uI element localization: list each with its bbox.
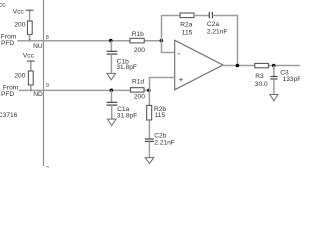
resistor R1d — [130, 79, 145, 101]
wire C1b to ground — [110, 54, 112, 73]
wire to inverting input (down jog) — [162, 41, 175, 53]
inverting input marker - — [178, 53, 181, 55]
resistor R1b — [130, 31, 145, 54]
capacitor C2b — [145, 132, 175, 146]
svg-text:9: 9 — [46, 83, 49, 89]
svg-text:115: 115 — [155, 112, 166, 119]
junction feedback/output — [236, 64, 240, 68]
svg-text:200: 200 — [14, 21, 25, 28]
capacitor C1b — [107, 41, 137, 74]
capacitor C3 — [270, 66, 301, 95]
wire pull-up to NU — [29, 34, 31, 40]
svg-text:200: 200 — [134, 47, 145, 54]
chip boundary line — [43, 0, 45, 166]
junction on ND for C1a — [110, 89, 114, 93]
wire output — [223, 65, 300, 67]
wire output node to C3 — [273, 66, 275, 77]
svg-text:R1d: R1d — [132, 79, 144, 86]
svg-text:2.21nF: 2.21nF — [154, 140, 175, 147]
svg-text:Vcc: Vcc — [13, 9, 25, 16]
op-amp U1 — [175, 40, 223, 90]
resistor body — [255, 63, 269, 67]
junction — [29, 40, 31, 42]
svg-text:133pF: 133pF — [283, 76, 300, 83]
svg-text:C3716: C3716 — [0, 112, 18, 119]
wire net NU — [17, 40, 161, 42]
wire Vcc to resistor — [29, 10, 31, 21]
label From PFD (upper) — [1, 34, 17, 47]
resistor 200 (lower Vcc pull-up) — [14, 71, 33, 85]
capacitor C1a — [107, 90, 138, 119]
wire feedback top — [161, 15, 180, 17]
svg-text:Vcc: Vcc — [23, 53, 35, 60]
resistor R3 — [255, 63, 269, 88]
junction NU / feedback / inverting input — [160, 39, 164, 43]
capacitor plates — [145, 138, 154, 140]
wire C2a to output node — [212, 16, 237, 66]
wire ND to C1a — [111, 90, 113, 102]
svg-text:R3: R3 — [255, 73, 264, 80]
op-amp triangle body — [175, 40, 223, 90]
ground (C1a) — [107, 119, 116, 126]
wire junction to R2b — [148, 90, 150, 105]
wire NU to C1b — [110, 41, 112, 52]
resistor 200 (upper Vcc pull-up) — [14, 21, 32, 34]
svg-text:C2b: C2b — [154, 132, 166, 139]
capacitor plates — [270, 76, 277, 78]
Vcc bar symbol — [27, 60, 35, 62]
capacitor plates — [208, 12, 210, 18]
svg-text:115: 115 — [182, 29, 193, 36]
resistor body — [147, 105, 152, 120]
wire pull-up to ND — [30, 85, 32, 90]
ground (C1b) — [107, 73, 116, 80]
wire R2a to C2a — [194, 15, 209, 17]
junction ND / + input / R2b — [147, 89, 151, 93]
wire Vcc to resistor — [30, 61, 32, 71]
resistor body — [130, 38, 144, 43]
svg-text:R2a: R2a — [180, 22, 192, 29]
ground (C2b) — [145, 158, 154, 164]
junction — [30, 89, 32, 91]
wire net ND — [19, 89, 149, 91]
junction R3/C3 — [272, 64, 276, 68]
wire R2b to C2b — [148, 120, 150, 139]
capacitor plates — [107, 101, 118, 103]
capacitor plates — [107, 50, 118, 52]
wire C3 to ground — [273, 79, 275, 95]
svg-text:8: 8 — [46, 35, 49, 41]
label From PFD (lower) — [1, 85, 19, 99]
svg-text:PFD: PFD — [1, 91, 14, 98]
ground (C3) — [270, 95, 278, 101]
noninverting input marker + — [179, 79, 183, 81]
svg-text:ND: ND — [33, 91, 43, 98]
wire C2b to ground — [148, 141, 150, 157]
wire to feedback (up) — [161, 15, 163, 41]
junction on NU for C1b — [109, 39, 113, 43]
svg-text:R1b: R1b — [132, 31, 144, 38]
wire C1a to ground — [111, 105, 113, 119]
resistor R2a — [180, 13, 194, 36]
svg-text:Vcc: Vcc — [0, 2, 6, 9]
svg-text:31.8pF: 31.8pF — [116, 64, 137, 71]
svg-text:200: 200 — [14, 72, 25, 79]
resistor body — [130, 88, 144, 92]
power Vcc (upper) — [13, 9, 34, 22]
resistor body — [180, 13, 194, 18]
Vcc bar symbol — [26, 9, 34, 11]
capacitor C2a — [207, 12, 228, 36]
wire to noninverting input (up jog) — [150, 78, 175, 91]
svg-text:2: 2 — [46, 166, 49, 168]
svg-text:C2a: C2a — [207, 21, 219, 28]
power Vcc (lower) — [23, 53, 35, 71]
svg-text:PFD: PFD — [1, 40, 14, 47]
svg-text:31.8pF: 31.8pF — [117, 112, 138, 119]
resistor R2b — [147, 105, 167, 120]
svg-text:200: 200 — [134, 93, 145, 100]
svg-text:NU: NU — [33, 43, 43, 50]
svg-text:30.0: 30.0 — [255, 81, 268, 88]
svg-text:2.21nF: 2.21nF — [207, 28, 228, 35]
